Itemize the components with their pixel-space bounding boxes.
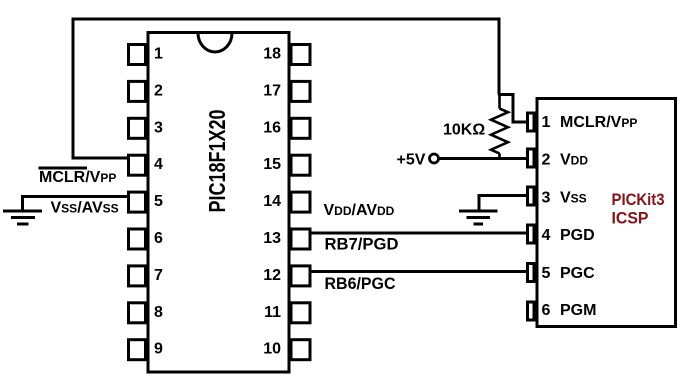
svg-text:ICSP: ICSP xyxy=(612,209,649,228)
svg-text:15: 15 xyxy=(263,156,281,173)
svg-text:3: 3 xyxy=(542,190,551,207)
svg-text:+5V: +5V xyxy=(397,152,426,169)
svg-text:10: 10 xyxy=(263,341,281,358)
svg-text:7: 7 xyxy=(154,267,163,284)
connector pin 4 box xyxy=(528,225,535,243)
wire ground stem xyxy=(21,195,24,210)
wire PICkit3 pin 3 Vss to ground xyxy=(479,196,527,211)
IC pin 3 box xyxy=(129,118,146,138)
node label MCLR/Vpp with overline bar on MCLR xyxy=(39,168,117,186)
svg-text:2: 2 xyxy=(154,82,163,99)
svg-text:MCLR/VPP: MCLR/VPP xyxy=(560,114,637,131)
resistor R1 xyxy=(491,95,508,159)
svg-text:PIC18F1X20: PIC18F1X20 xyxy=(204,110,230,213)
svg-text:PGM: PGM xyxy=(560,302,596,319)
IC pin 12 box xyxy=(291,266,310,286)
wire +5V to PICkit3 pin 2 (Vdd net) xyxy=(439,157,528,160)
svg-text:16: 16 xyxy=(263,119,281,136)
svg-text:4: 4 xyxy=(154,156,163,173)
connector pin 6 box xyxy=(528,302,535,320)
IC pin 14 box xyxy=(291,192,310,212)
IC pin-1 notch xyxy=(198,33,232,52)
svg-text:6: 6 xyxy=(154,230,163,247)
svg-text:1: 1 xyxy=(542,114,551,131)
svg-text:VDD/AVDD: VDD/AVDD xyxy=(324,202,395,219)
IC pin 13 box xyxy=(291,229,310,249)
IC pin 9 box xyxy=(129,340,146,360)
connector pin 2 box xyxy=(528,149,535,167)
svg-text:2: 2 xyxy=(542,152,551,169)
wire from IC pin 4 up over the top to resistor (MCLR/Vpp net) xyxy=(73,19,127,158)
+5V supply terminal circle xyxy=(430,154,439,163)
IC pin 17 box xyxy=(291,81,310,101)
wire RB6/PGC to PICkit3 pin 5 xyxy=(311,270,527,273)
connector pin 5 box xyxy=(528,264,535,282)
IC pin 5 box xyxy=(129,192,146,212)
svg-text:1: 1 xyxy=(154,46,163,63)
IC U1 PIC18F1X20 body xyxy=(148,33,289,373)
wire top horizontal run xyxy=(72,18,501,21)
connector pin 1 box xyxy=(528,113,535,131)
svg-text:RB7/PGD: RB7/PGD xyxy=(325,235,399,254)
svg-text:4: 4 xyxy=(542,227,551,244)
svg-text:PGC: PGC xyxy=(560,265,595,282)
IC pin 7 box xyxy=(129,266,146,286)
ground (PICkit3 Vss) xyxy=(459,211,498,224)
IC pin 11 box xyxy=(291,303,310,323)
connector J1 PICkit3 ICSP box xyxy=(537,99,676,327)
svg-text:RB6/PGC: RB6/PGC xyxy=(325,274,396,293)
IC pin 15 box xyxy=(291,155,310,175)
svg-text:PGD: PGD xyxy=(560,227,595,244)
svg-text:VSS/AVSS: VSS/AVSS xyxy=(51,200,119,217)
IC pin 18 box xyxy=(291,45,310,65)
svg-text:11: 11 xyxy=(264,304,281,321)
svg-text:17: 17 xyxy=(263,82,281,99)
svg-text:9: 9 xyxy=(154,341,163,358)
svg-text:5: 5 xyxy=(154,193,163,210)
svg-text:12: 12 xyxy=(263,267,281,284)
IC pin 8 box xyxy=(129,303,146,323)
svg-text:10KΩ: 10KΩ xyxy=(443,122,485,139)
svg-text:PICKit3: PICKit3 xyxy=(612,190,665,209)
wire right vertical drop to resistor top xyxy=(498,18,501,95)
IC pin 6 box xyxy=(129,229,146,249)
IC pin 1 box xyxy=(129,45,146,65)
svg-text:13: 13 xyxy=(263,230,281,247)
IC pin 2 box xyxy=(129,81,146,101)
svg-text:18: 18 xyxy=(263,46,281,63)
wire RB7/PGD to PICkit3 pin 4 xyxy=(311,232,527,235)
svg-text:VDD: VDD xyxy=(560,152,588,169)
IC pin 10 box xyxy=(291,340,310,360)
svg-text:MCLR/VPP: MCLR/VPP xyxy=(39,169,116,186)
wire IC pin 5 Vss/AVss to ground xyxy=(23,195,129,198)
svg-text:5: 5 xyxy=(542,265,551,282)
svg-text:8: 8 xyxy=(154,304,163,321)
IC pin 4 box xyxy=(129,155,146,175)
connector pin 3 box xyxy=(528,187,535,205)
svg-text:VSS: VSS xyxy=(560,190,587,207)
wire jog into PICkit3 pin 1 xyxy=(498,95,527,123)
svg-text:3: 3 xyxy=(154,119,163,136)
ground (Vss/AVss) xyxy=(3,211,42,224)
IC pin 16 box xyxy=(291,118,310,138)
svg-text:14: 14 xyxy=(263,193,281,210)
svg-text:6: 6 xyxy=(542,302,551,319)
